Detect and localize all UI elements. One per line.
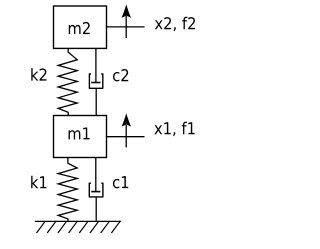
- damper c2 rod bottom: [95, 88, 97, 115]
- label c2: [113, 69, 128, 81]
- spring k2: [58, 49, 77, 116]
- label k1: [31, 176, 46, 188]
- arrow x1 head: [122, 113, 132, 126]
- arrow line from m1: [107, 136, 145, 138]
- ground line: [35, 220, 121, 222]
- arrow x2 shaft: [125, 16, 127, 38]
- mass m2 box: [54, 6, 107, 48]
- label x2, f2: [155, 17, 195, 31]
- arrow x2 head: [122, 4, 132, 17]
- arrow x1 shaft: [125, 125, 127, 147]
- mass m1 box: [54, 116, 107, 158]
- ground hatching: [37, 222, 120, 233]
- damper c1 cup: [89, 183, 103, 197]
- spring k1: [58, 158, 77, 222]
- damper c2 rod top: [95, 49, 97, 83]
- label k2: [31, 68, 46, 80]
- damper c1 rod bottom: [95, 197, 97, 221]
- label c1: [113, 176, 128, 188]
- damper c1 rod top: [95, 158, 97, 192]
- label x1, f1: [154, 122, 194, 136]
- arrow line from m2: [107, 26, 145, 28]
- damper c1 piston: [91, 191, 100, 193]
- damper c2 cup: [89, 74, 102, 88]
- label m1: [69, 127, 90, 139]
- label m2: [69, 22, 90, 34]
- damper c2 piston: [91, 82, 100, 84]
